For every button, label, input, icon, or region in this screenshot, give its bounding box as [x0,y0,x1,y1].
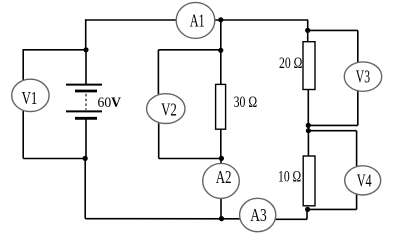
ammeter A1 [176,2,215,38]
svg-text:V4: V4 [357,171,372,191]
svg-text:A2: A2 [216,167,232,187]
svg-text:60V: 60V [98,95,122,111]
svg-text:V3: V3 [356,67,370,87]
node junction dot below A1 [218,48,223,53]
node junction dot A1 right [218,17,223,22]
wire top right corner vertical [307,20,309,31]
resistor 10 ohm body [303,156,315,206]
node junction dot battery bottom [83,156,88,161]
wire bottom right horizontal [307,208,357,210]
svg-text:V1: V1 [22,88,38,108]
wire V4 top horizontal [308,130,356,132]
svg-text:30 Ω: 30 Ω [234,94,258,111]
wire left bottom vertical [84,159,86,219]
node junction dot below A2 [219,216,224,221]
node junction dot R10 bottom [305,207,310,212]
svg-text:20 Ω: 20 Ω [279,55,302,72]
svg-text:V2: V2 [161,99,177,119]
wire R20 top vertical [307,31,309,42]
wire A2 top stub [220,159,222,164]
wire V3 top horizontal [308,29,358,31]
svg-text:10 Ω: 10 Ω [278,168,301,185]
wire R10 top vertical [307,131,309,156]
ammeter A2 [203,163,240,198]
node junction dot battery top [83,47,88,52]
voltmeter V1 [12,79,49,111]
node junction dot top right [305,28,310,33]
node junction dot above A2 [219,156,224,161]
node junction dot R10 top [306,128,311,133]
wire between mid junctions [307,125,309,130]
wire V1 left upper vertical [22,50,24,80]
wire A3 right horizontal [276,218,308,220]
wire V3 top vertical [357,30,359,62]
wire R20 bottom vertical [307,89,309,125]
wire jog up to R10 junction [306,209,308,219]
wire V2 bottom horizontal [159,158,222,160]
wire V1 left lower vertical [22,111,24,159]
wire A2 bottom vertical [220,198,222,219]
wire V2 top horizontal [158,49,221,51]
svg-text:A3: A3 [250,205,267,225]
wire middle vertical node to R30 top [220,50,222,84]
svg-text:A1: A1 [190,10,205,30]
wire top right horizontal [214,19,308,21]
wire top left horizontal [86,19,177,21]
battery B1 60V [66,85,102,119]
wire V3 bottom vertical [357,91,359,125]
wire bottom horizontal to A3 [85,218,240,220]
voltmeter V4 [345,166,381,195]
wire V4 top vertical [356,131,358,166]
node junction dot R20 bottom [306,123,311,128]
wire V3 bottom horizontal [308,124,358,126]
voltmeter V3 [344,62,381,91]
wire battery top vertical [85,50,87,84]
wire middle vertical A1 to V2 node [220,20,222,51]
wire R30 bottom to node [220,129,222,158]
wire V1 bottom horizontal [23,158,85,160]
wire battery bottom vertical [85,119,87,159]
resistor 20 ohm body [303,42,315,90]
wire V2 left vertical [157,50,159,94]
wire V1 top horizontal [23,49,87,51]
wire V2 bottom vertical [158,123,160,158]
resistor 30 ohm body [216,84,226,129]
ammeter A3 [240,198,276,231]
wire left column top vertical [85,19,87,50]
wire V4 bottom vertical [356,195,358,210]
voltmeter V2 [147,94,185,124]
